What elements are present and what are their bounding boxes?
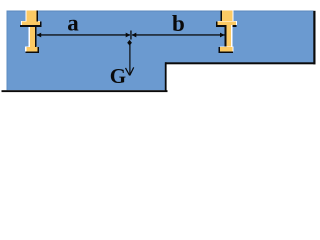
arrowhead left end of a (37, 33, 42, 38)
arrowhead left end of b (132, 33, 137, 38)
center of gravity diamond marker (127, 40, 132, 46)
panel top darker edge (7, 11, 314, 12)
dimension line b (right segment) (132, 34, 225, 35)
left pin black shadows (20, 11, 42, 54)
panel bottom border (left section) (2, 90, 168, 92)
svg-text:G: G (110, 64, 126, 88)
stem (226, 25, 231, 47)
G arrowhead (open V) (126, 67, 134, 75)
flange (218, 22, 236, 26)
blue panel bottom-left (7, 60, 166, 90)
stem (30, 25, 35, 47)
panel bottom border (right section) (165, 62, 316, 64)
dimension line a (left segment) (37, 34, 130, 35)
svg-text:a: a (67, 10, 79, 35)
panel right black border (313, 11, 315, 65)
foot (220, 47, 232, 51)
right pin yellow body (218, 11, 236, 52)
foot (26, 47, 37, 51)
right pin black shadows (216, 11, 236, 54)
column (222, 11, 232, 22)
center tick (130, 31, 131, 40)
left pin white highlights (21, 11, 40, 52)
panel left darker edge (7, 11, 8, 91)
svg-text:b: b (172, 11, 185, 36)
panel step vertical border (165, 62, 167, 92)
arrowhead right end of b (220, 33, 225, 38)
flange (22, 22, 40, 26)
G force vertical line (129, 44, 130, 76)
arrowhead right end of a (126, 33, 131, 38)
right pin white highlights (218, 11, 238, 52)
column (27, 11, 37, 22)
left pin yellow body (22, 11, 40, 52)
blue panel top (full width) (7, 11, 314, 63)
